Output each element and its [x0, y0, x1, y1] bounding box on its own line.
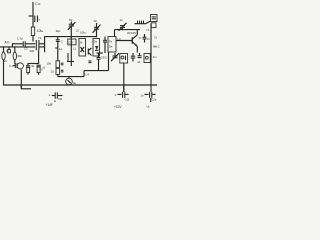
coil L1 [2, 47, 9, 63]
choke L5 [135, 21, 151, 24]
svg-text:10: 10 [51, 69, 55, 73]
svg-text:1kp·: 1kp· [56, 29, 62, 33]
IF can T4 [108, 37, 116, 52]
svg-text:10k: 10k [47, 62, 52, 66]
svg-text:Da: Da [94, 40, 98, 44]
svg-text:+14F: +14F [46, 103, 53, 107]
trimmer TC1 [93, 19, 101, 37]
wire mid horizontal [45, 36, 97, 38]
IF can T3 [93, 39, 100, 57]
svg-text:1.7p: 1.7p [17, 37, 23, 41]
svg-text:Tr: Tr [139, 36, 142, 40]
svg-text:0e: 0e [73, 81, 77, 85]
wire tick [11, 44, 13, 47]
svg-text:300: 300 [30, 49, 35, 53]
wire bottom bus [4, 84, 158, 86]
svg-text:MB·C: MB·C [153, 45, 160, 49]
wire L4 row [84, 52, 109, 77]
coil L2 [13, 47, 22, 60]
wire [26, 43, 36, 45]
svg-text:L1: L1 [73, 47, 77, 51]
wire B2 down [123, 63, 125, 92]
svg-text:+12V: +12V [114, 105, 122, 109]
wire input top [12, 43, 23, 45]
capacitor Cb [37, 65, 44, 74]
wire [32, 36, 34, 42]
capacitor ticks right [61, 63, 64, 72]
tick [55, 47, 58, 49]
wire emitter row [58, 76, 84, 78]
svg-text:1a: 1a [59, 47, 63, 51]
capacitor ticks mid [89, 61, 92, 63]
wire top vertical [32, 2, 34, 16]
box B3 [144, 54, 150, 63]
svg-text:Ct: Ct [6, 49, 9, 53]
resistor R3 [47, 61, 60, 68]
svg-text:Dr: Dr [80, 41, 83, 45]
wire T1 bus [44, 37, 46, 53]
svg-text:T1: T1 [38, 36, 42, 40]
wire top right bus [115, 30, 141, 37]
wire stub [28, 63, 39, 65]
wire [3, 60, 5, 85]
svg-text:C11: C11 [125, 98, 130, 102]
transistor circle T1a [17, 63, 23, 69]
IF can T2 [79, 39, 86, 57]
svg-text:De: De [109, 45, 113, 49]
capacitor C7 [103, 37, 107, 53]
wire from T1 secondary down [38, 50, 40, 63]
wire [20, 70, 22, 89]
capacitor C9 electrolytic [46, 92, 63, 107]
capacitor C1 [29, 16, 41, 23]
box B2 [120, 54, 128, 64]
svg-text:C8 C: C8 C [101, 56, 107, 60]
trimmer TC2 [119, 18, 127, 31]
capacitor C2 [23, 41, 25, 46]
svg-text:CR: CR [58, 97, 62, 101]
capacitor C5 [56, 40, 63, 44]
wire osc vertical [57, 37, 59, 40]
svg-text:+: + [49, 94, 51, 98]
trimmer capacitor C6 [68, 18, 80, 33]
transistor Tr AF126 [116, 30, 141, 53]
capacitor Ca [26, 64, 30, 75]
svg-text:f.b: f.b [146, 28, 149, 32]
svg-text:A b: A b [5, 41, 10, 45]
transistor squiggle between cans [88, 48, 91, 56]
wire short [97, 52, 104, 54]
transformer T1 [36, 36, 44, 50]
svg-text:C07: C07 [69, 41, 74, 45]
svg-text:Tsl: Tsl [93, 19, 97, 23]
junction dots [3, 29, 152, 86]
svg-text:C10: C10 [35, 2, 41, 6]
wire [57, 57, 59, 61]
svg-text:L4: L4 [86, 73, 90, 77]
antenna connector [8, 47, 11, 53]
svg-text:Fe: Fe [109, 40, 113, 44]
wire [57, 75, 59, 77]
wire [32, 16, 34, 27]
capacitor C14 [131, 53, 135, 62]
wire [57, 41, 59, 57]
resistor R4 [51, 68, 60, 74]
capacitor C8 [97, 53, 108, 71]
svg-text:1p: 1p [120, 18, 124, 22]
svg-text:30k: 30k [17, 54, 22, 58]
resistor R1 [31, 27, 34, 36]
svg-text:Tsl: Tsl [69, 18, 73, 22]
wire jog [21, 85, 31, 89]
wire input main [0, 46, 35, 48]
trimmer TC3 [111, 53, 119, 61]
coil core marks [67, 53, 74, 62]
svg-text:C2a: C2a [152, 98, 157, 102]
jack box top right [146, 15, 157, 32]
capacitor C11 [114, 85, 130, 109]
box C07 [68, 39, 76, 45]
capacitor C13 [143, 34, 151, 43]
svg-text:a1: a1 [138, 60, 141, 64]
capacitor plates [13, 63, 17, 68]
wire [70, 26, 72, 66]
svg-text:8.1: 8.1 [9, 64, 13, 68]
svg-text:C: C [61, 40, 63, 44]
transistor T2 [66, 77, 77, 85]
wire right bus vertical [150, 24, 152, 92]
wire [14, 60, 16, 64]
capacitor C15 [138, 53, 142, 64]
capacitor C12 [141, 92, 157, 109]
